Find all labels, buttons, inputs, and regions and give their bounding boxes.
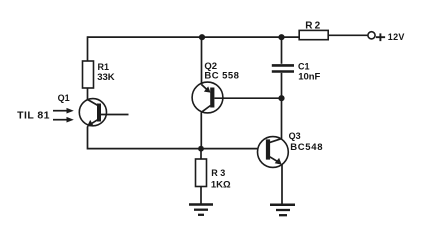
svg-text:R 3: R 3	[211, 168, 225, 178]
svg-text:TIL 81: TIL 81	[17, 109, 50, 121]
svg-text:Q3: Q3	[289, 131, 301, 141]
svg-text:BC548: BC548	[290, 142, 323, 153]
svg-text:Q1: Q1	[58, 93, 70, 103]
svg-text:10nF: 10nF	[298, 72, 320, 83]
svg-text:R 2: R 2	[305, 21, 320, 32]
svg-text:BC 558: BC 558	[204, 70, 239, 81]
svg-text:C1: C1	[298, 62, 310, 72]
svg-text:33K: 33K	[97, 72, 115, 83]
svg-text:12V: 12V	[388, 32, 405, 42]
svg-text:R1: R1	[98, 62, 110, 72]
svg-text:1KΩ: 1KΩ	[211, 180, 231, 191]
